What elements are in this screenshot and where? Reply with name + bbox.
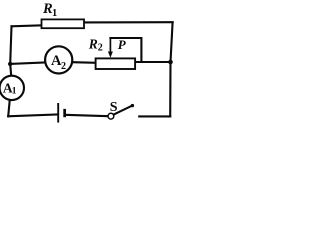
rheostat R2 [96, 58, 136, 69]
switch S lever tip dot [131, 104, 134, 107]
switch S pivot circle [108, 113, 114, 119]
wire slider hook over to right lead [110, 38, 141, 62]
svg-text:2: 2 [61, 61, 66, 72]
wire left bus middle (A1 to junction) [10, 64, 11, 76]
wire right bus [170, 22, 172, 116]
svg-text:S: S [110, 100, 118, 115]
battery short thick plate [63, 109, 66, 117]
svg-text:1: 1 [52, 8, 57, 19]
wire A2 to R2 [73, 61, 96, 64]
node junction dot right [168, 60, 173, 65]
wire switch to battery [66, 115, 108, 116]
wire left bus lower (corner to A1) [8, 100, 10, 116]
battery long plate [57, 103, 59, 123]
switch S lever [114, 106, 132, 115]
wire R2 right lead to bus [135, 61, 170, 63]
svg-text:2: 2 [98, 43, 103, 54]
ammeter A1 [0, 76, 24, 100]
svg-text:R: R [88, 37, 98, 52]
wire left bus upper (junction to top corner) [10, 26, 11, 64]
wire battery to bottom-left corner [8, 115, 57, 117]
svg-text:P: P [118, 37, 127, 52]
resistor R1 [42, 19, 85, 28]
wire top-left segment [12, 25, 42, 26]
wire top-right segment [84, 21, 173, 23]
svg-text:1: 1 [12, 87, 17, 97]
wire bottom-right to switch [139, 115, 170, 117]
node junction dot left [8, 62, 12, 66]
slider P arrow [109, 38, 111, 53]
ammeter A2 [45, 46, 72, 73]
wire branch junction to A2 [10, 63, 44, 64]
